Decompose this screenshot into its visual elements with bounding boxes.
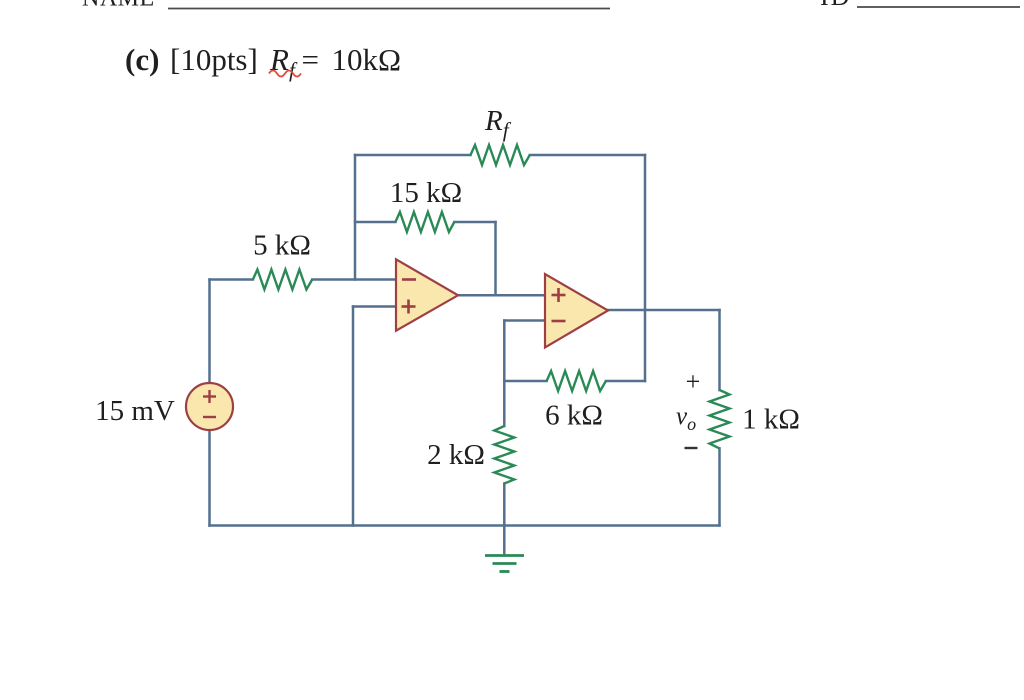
wire source top vertical	[208, 280, 211, 384]
resistor 15 kOhm	[395, 212, 454, 232]
wire 1k resistor bottom lead	[718, 448, 721, 525]
header NAME underline	[168, 8, 610, 10]
red squiggly underline under Rf	[269, 71, 301, 77]
wire U1 noninverting input vertical down to ground bus	[352, 307, 355, 526]
label plus polarity of vo	[686, 367, 701, 396]
wire 6k feedback left lead	[504, 380, 546, 383]
wire 5k to U1 inverting input	[312, 278, 396, 281]
svg-text:NAME: NAME	[82, 0, 155, 12]
wire load right vertical to 1k resistor	[718, 310, 721, 390]
svg-text:vo: vo	[676, 403, 696, 434]
wire vertical from 15k down to op-amp U1 output node	[494, 222, 497, 295]
resistor 2 kOhm	[494, 426, 514, 484]
wire bottom ground bus	[210, 524, 720, 527]
svg-text:5 kΩ: 5 kΩ	[253, 230, 311, 262]
header NAME text (cut off at top)	[82, 0, 155, 12]
resistor 1 kOhm	[710, 390, 730, 448]
svg-text:2 kΩ: 2 kΩ	[427, 439, 485, 471]
svg-text:6 kΩ: 6 kΩ	[545, 400, 603, 432]
resistor Rf	[471, 145, 530, 165]
wire U1 noninverting input horizontal	[353, 305, 396, 308]
wire U1 output to U2 noninverting input	[458, 294, 545, 297]
op-amp U2	[545, 274, 608, 347]
op-amp U1	[396, 259, 458, 330]
wire top left segment (node A to Rf)	[355, 154, 471, 157]
wire from source top corner to 5k resistor	[210, 278, 253, 281]
wire left vertical at node A (top wire down to inverting input wire)	[354, 155, 357, 280]
wire right vertical from top wire down to 6k feedback	[644, 155, 647, 381]
wire 2k resistor bottom lead to ground bus	[503, 484, 506, 526]
wire 15k feedback right lead	[454, 221, 495, 224]
wire top right segment (Rf to right vertical)	[530, 154, 645, 157]
label 6 kOhm	[545, 400, 603, 432]
label Rf	[484, 105, 512, 142]
svg-text:Rf: Rf	[484, 105, 512, 142]
label 2 kOhm	[427, 439, 485, 471]
svg-text:15 mV: 15 mV	[95, 395, 175, 427]
label 5 kOhm	[253, 230, 311, 262]
label 15 mV	[95, 395, 175, 427]
svg-text:(c) [10pts] Rf=10k: (c) [10pts] Rf=10kΩ	[125, 42, 401, 82]
wire U2 inverting input horizontal	[504, 319, 545, 322]
label minus polarity of vo	[685, 447, 698, 449]
label 15 kOhm	[390, 177, 462, 209]
resistor 5 kOhm	[253, 270, 312, 290]
svg-text:15 kΩ: 15 kΩ	[390, 177, 462, 209]
title (c) [10pts] Rf = 10k ohm	[125, 42, 401, 82]
wire ground stub	[503, 526, 506, 556]
wire 6k feedback right lead	[606, 380, 645, 383]
wire source bottom vertical	[208, 430, 211, 526]
svg-text:+: +	[686, 367, 701, 396]
resistor 6 kOhm	[547, 371, 606, 391]
label 1 kOhm	[742, 404, 800, 436]
label vo	[676, 403, 696, 434]
header ID text (cut off at top)	[820, 0, 851, 11]
wire U2 output to load corner	[608, 309, 720, 312]
header ID underline	[857, 6, 1020, 8]
wire vertical from U2 inverting input down to 2k resistor	[503, 321, 506, 427]
ground	[485, 556, 524, 572]
voltage source 15 mV	[186, 383, 233, 430]
svg-text:ID: ID	[820, 0, 851, 11]
wire 15k feedback left lead	[355, 221, 395, 224]
svg-text:1 kΩ: 1 kΩ	[742, 404, 800, 436]
